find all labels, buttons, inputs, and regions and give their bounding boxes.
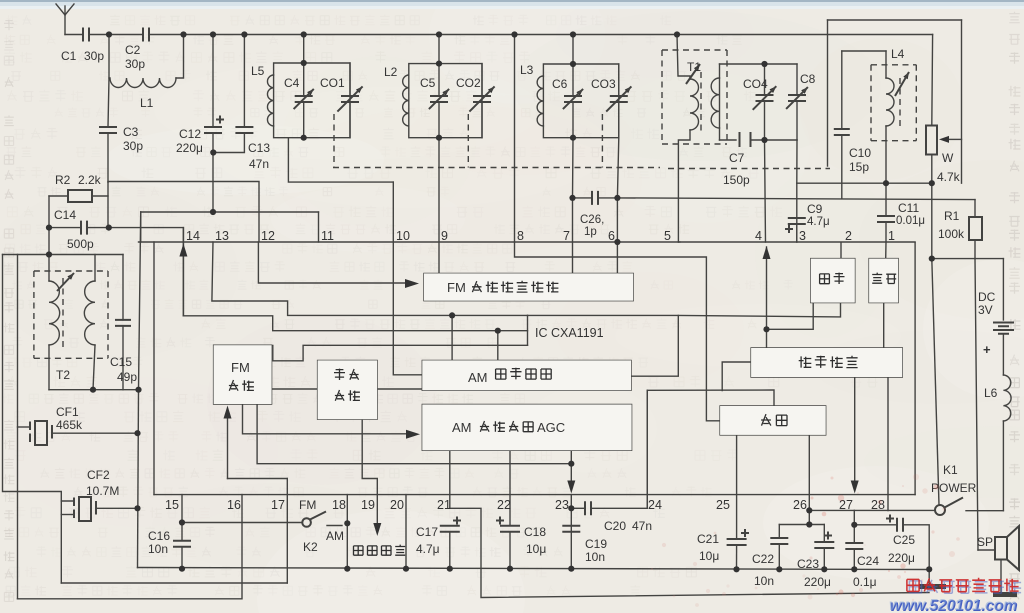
svg-text:11: 11 bbox=[321, 229, 334, 243]
svg-text:20: 20 bbox=[390, 498, 404, 512]
svg-text:C12: C12 bbox=[179, 127, 201, 141]
svg-text:4.7μ: 4.7μ bbox=[807, 216, 830, 228]
svg-text:C15: C15 bbox=[110, 355, 132, 369]
svg-text:SP: SP bbox=[977, 535, 993, 549]
svg-text:C7: C7 bbox=[729, 151, 745, 165]
svg-text:C4: C4 bbox=[284, 76, 300, 90]
svg-text:2: 2 bbox=[845, 229, 852, 243]
svg-text:22: 22 bbox=[497, 498, 511, 512]
svg-text:0.1μ: 0.1μ bbox=[853, 575, 877, 589]
svg-text:24: 24 bbox=[648, 498, 662, 512]
svg-text:9: 9 bbox=[441, 229, 448, 243]
svg-text:CF1: CF1 bbox=[56, 405, 79, 419]
svg-text:30p: 30p bbox=[123, 139, 143, 153]
svg-text:FM: FM bbox=[447, 280, 466, 295]
svg-text:10n: 10n bbox=[585, 550, 605, 564]
svg-text:150p: 150p bbox=[723, 173, 750, 187]
svg-text:C1: C1 bbox=[61, 49, 77, 63]
svg-text:19: 19 bbox=[361, 498, 375, 512]
svg-text:14: 14 bbox=[186, 229, 200, 243]
svg-text:10μ: 10μ bbox=[699, 549, 719, 563]
svg-text:C16: C16 bbox=[148, 529, 170, 543]
svg-text:C17: C17 bbox=[416, 525, 438, 539]
svg-text:C26,: C26, bbox=[580, 214, 604, 226]
svg-text:R2: R2 bbox=[55, 173, 71, 187]
svg-text:R1: R1 bbox=[944, 209, 960, 223]
svg-text:30p: 30p bbox=[125, 57, 145, 71]
svg-text:C14: C14 bbox=[54, 208, 76, 222]
svg-text:K1: K1 bbox=[943, 463, 958, 477]
svg-text:L6: L6 bbox=[984, 386, 998, 400]
svg-text:L5: L5 bbox=[251, 64, 265, 78]
svg-text:C2: C2 bbox=[125, 43, 141, 57]
svg-text:AGC: AGC bbox=[537, 420, 565, 435]
svg-text:L3: L3 bbox=[520, 63, 534, 77]
svg-text:CF2: CF2 bbox=[87, 468, 110, 482]
svg-text:47n: 47n bbox=[632, 519, 652, 533]
svg-text:47n: 47n bbox=[249, 157, 269, 171]
svg-text:+: + bbox=[983, 342, 991, 357]
svg-text:15p: 15p bbox=[849, 160, 869, 174]
svg-text:220μ: 220μ bbox=[804, 575, 831, 589]
svg-text:10n: 10n bbox=[754, 574, 774, 588]
svg-text:C23: C23 bbox=[797, 557, 819, 571]
svg-text:3V: 3V bbox=[978, 303, 993, 317]
svg-text:3: 3 bbox=[799, 229, 806, 243]
svg-text:C8: C8 bbox=[800, 72, 816, 86]
svg-text:CO3: CO3 bbox=[591, 77, 616, 91]
svg-text:1: 1 bbox=[888, 229, 895, 243]
svg-text:C22: C22 bbox=[752, 552, 774, 566]
svg-text:IC CXA1191: IC CXA1191 bbox=[535, 326, 604, 340]
svg-text:4.7μ: 4.7μ bbox=[416, 542, 440, 556]
svg-text:16: 16 bbox=[227, 498, 241, 512]
svg-text:28: 28 bbox=[871, 498, 885, 512]
svg-text:www.520101.com: www.520101.com bbox=[889, 597, 1017, 613]
svg-text:C3: C3 bbox=[123, 125, 139, 139]
svg-text:L2: L2 bbox=[384, 65, 398, 79]
svg-text:K2: K2 bbox=[303, 540, 318, 554]
svg-text:AM: AM bbox=[326, 529, 344, 543]
svg-text:0.01μ: 0.01μ bbox=[896, 215, 925, 227]
svg-text:C25: C25 bbox=[893, 533, 915, 547]
svg-text:DC: DC bbox=[978, 290, 996, 304]
svg-text:10.7M: 10.7M bbox=[86, 484, 119, 498]
svg-text:CO2: CO2 bbox=[456, 76, 481, 90]
svg-text:C6: C6 bbox=[552, 77, 568, 91]
svg-text:W: W bbox=[942, 151, 954, 165]
svg-text:15: 15 bbox=[165, 498, 179, 512]
svg-text:T2: T2 bbox=[56, 368, 70, 382]
svg-text:220μ: 220μ bbox=[176, 141, 203, 155]
svg-text:C18: C18 bbox=[524, 525, 546, 539]
svg-text:C21: C21 bbox=[697, 532, 719, 546]
svg-text:21: 21 bbox=[437, 498, 451, 512]
svg-text:FM: FM bbox=[299, 498, 316, 512]
svg-text:10n: 10n bbox=[148, 542, 168, 556]
svg-text:25: 25 bbox=[716, 498, 730, 512]
svg-text:AM: AM bbox=[452, 420, 472, 435]
svg-text:220μ: 220μ bbox=[888, 551, 915, 565]
svg-text:2.2k: 2.2k bbox=[78, 173, 102, 187]
svg-text:6: 6 bbox=[608, 229, 615, 243]
svg-text:T1: T1 bbox=[687, 60, 701, 74]
svg-text:C19: C19 bbox=[585, 537, 607, 551]
svg-text:10: 10 bbox=[396, 229, 410, 243]
svg-text:49p: 49p bbox=[117, 370, 137, 384]
svg-text:23: 23 bbox=[555, 498, 569, 512]
svg-text:8: 8 bbox=[517, 229, 524, 243]
svg-text:C24: C24 bbox=[857, 554, 879, 568]
svg-text:C11: C11 bbox=[898, 201, 919, 215]
svg-text:100k: 100k bbox=[938, 227, 965, 241]
svg-text:4.7k: 4.7k bbox=[937, 170, 961, 184]
svg-text:7: 7 bbox=[563, 229, 570, 243]
svg-text:30p: 30p bbox=[84, 49, 104, 63]
svg-text:L1: L1 bbox=[140, 96, 154, 110]
svg-text:5: 5 bbox=[664, 229, 671, 243]
svg-text:10μ: 10μ bbox=[526, 542, 546, 556]
svg-text:CO4: CO4 bbox=[743, 77, 768, 91]
svg-text:12: 12 bbox=[261, 229, 275, 243]
svg-text:465k: 465k bbox=[56, 418, 83, 432]
svg-text:AM: AM bbox=[468, 370, 488, 385]
svg-text:C5: C5 bbox=[420, 76, 436, 90]
svg-text:18: 18 bbox=[332, 498, 346, 512]
svg-text:C10: C10 bbox=[849, 146, 871, 160]
svg-text:FM: FM bbox=[231, 360, 250, 375]
svg-text:L4: L4 bbox=[891, 47, 905, 61]
svg-text:26: 26 bbox=[793, 498, 807, 512]
svg-text:4: 4 bbox=[755, 229, 762, 243]
svg-text:17: 17 bbox=[271, 498, 285, 512]
svg-text:C9: C9 bbox=[807, 202, 823, 216]
svg-text:13: 13 bbox=[215, 229, 229, 243]
svg-text:C13: C13 bbox=[248, 141, 270, 155]
svg-text:CO1: CO1 bbox=[320, 76, 345, 90]
svg-text:C20: C20 bbox=[604, 519, 626, 533]
svg-text:500p: 500p bbox=[67, 237, 94, 251]
svg-text:1p: 1p bbox=[584, 226, 597, 238]
